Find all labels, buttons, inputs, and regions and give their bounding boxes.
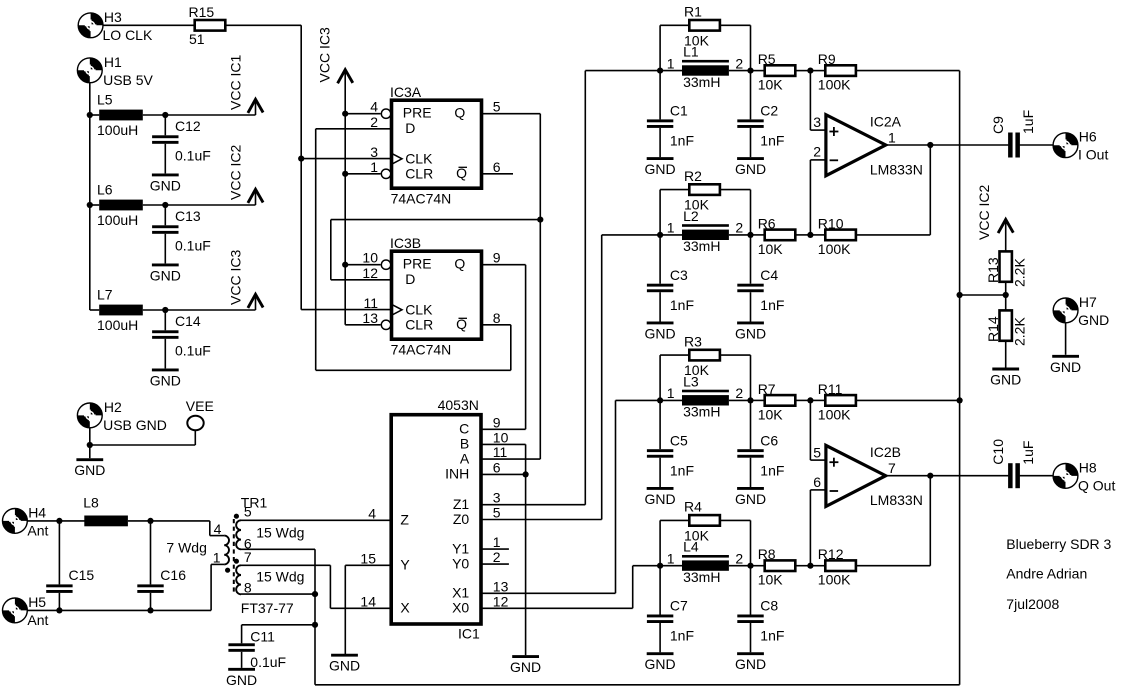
power symbol VCC IC3 arrow xyxy=(248,294,263,308)
junction LO I net xyxy=(537,217,543,223)
svg-text:D: D xyxy=(405,120,415,136)
svg-text:C8: C8 xyxy=(760,598,778,614)
svg-text:CLK: CLK xyxy=(405,301,433,317)
svg-text:15 Wdg: 15 Wdg xyxy=(256,568,304,584)
op-amp IC2B LM833N xyxy=(826,445,886,506)
node filter 3 left xyxy=(657,397,663,403)
svg-text:D: D xyxy=(405,271,415,287)
svg-text:IC2B: IC2B xyxy=(870,444,901,460)
svg-text:GND: GND xyxy=(329,658,360,674)
power symbol VEE xyxy=(187,416,203,431)
node op-amp input filter 3 xyxy=(807,397,813,403)
node op-amp input filter 4 xyxy=(807,563,813,569)
clock triangle IC3A xyxy=(392,153,402,164)
connector H1 USB 5V xyxy=(77,58,102,83)
power symbol VCC IC2 arrow xyxy=(248,189,263,203)
svg-text:C4: C4 xyxy=(760,267,778,283)
plus sign IC2A xyxy=(829,127,838,136)
svg-text:15 Wdg: 15 Wdg xyxy=(256,524,304,540)
svg-text:2: 2 xyxy=(493,549,501,565)
svg-text:10K: 10K xyxy=(758,572,784,588)
inductor L8 xyxy=(84,516,128,527)
wire to R10 xyxy=(810,234,825,236)
svg-text:100K: 100K xyxy=(818,406,851,422)
wire node to R6 xyxy=(751,234,765,236)
svg-text:0.1uF: 0.1uF xyxy=(175,342,211,358)
svg-text:Q: Q xyxy=(454,105,465,121)
svg-text:R9: R9 xyxy=(818,51,836,67)
resistor R4 10K xyxy=(689,515,720,526)
svg-text:VCC IC3: VCC IC3 xyxy=(317,27,333,82)
svg-text:C1: C1 xyxy=(670,103,688,119)
svg-text:3: 3 xyxy=(493,490,501,506)
svg-text:B: B xyxy=(460,436,469,452)
wire C11 to ground xyxy=(241,652,243,668)
svg-text:PRE: PRE xyxy=(403,256,432,272)
svg-text:GND: GND xyxy=(735,656,766,672)
wire to C14 xyxy=(164,310,166,330)
wire R5 out xyxy=(795,70,810,72)
svg-text:R6: R6 xyxy=(758,215,776,231)
junction C12 tap xyxy=(162,112,168,118)
node filter 4 right xyxy=(747,563,753,569)
wire to C6 xyxy=(750,400,752,449)
svg-text:1nF: 1nF xyxy=(670,628,694,644)
transformer TR1 secondary winding top xyxy=(236,520,241,549)
wire feedback IC2A xyxy=(929,145,931,235)
connector H7 GND xyxy=(1053,298,1078,323)
wire IC2A output xyxy=(886,144,1009,146)
svg-text:INH: INH xyxy=(445,466,469,482)
wire B INH to ground xyxy=(525,444,527,655)
wire to IC2A plus input xyxy=(809,71,811,131)
svg-text:9: 9 xyxy=(493,250,501,266)
wire Z0 up to filter 2 xyxy=(601,235,603,520)
svg-text:100uH: 100uH xyxy=(97,317,138,333)
ground C7 xyxy=(645,654,676,673)
ground H7 xyxy=(1050,356,1081,375)
svg-text:33mH: 33mH xyxy=(683,74,720,90)
wire IC1 C pin 9 xyxy=(482,428,526,430)
svg-text:GND: GND xyxy=(645,656,676,672)
svg-text:GND: GND xyxy=(990,372,1021,388)
connector H6 I Out xyxy=(1053,133,1078,158)
svg-text:1: 1 xyxy=(667,385,675,401)
svg-text:13: 13 xyxy=(493,578,509,594)
junction C15 bottom xyxy=(56,607,62,613)
svg-text:Y: Y xyxy=(400,557,410,573)
junction LO CLK / IC3A CLK xyxy=(298,156,304,162)
wire to C12 xyxy=(164,115,166,135)
svg-text:R2: R2 xyxy=(684,168,702,184)
capacitor C11 0.1uF xyxy=(228,643,254,652)
wire C9 to H6 xyxy=(1020,144,1054,146)
wire L6 to VCC IC2 xyxy=(143,204,256,206)
junction C13 tap xyxy=(162,202,168,208)
wire IC3B D pin 12 xyxy=(331,279,390,281)
svg-text:3: 3 xyxy=(370,144,378,160)
wire into filter 1 xyxy=(585,70,660,72)
wire node to R8 xyxy=(751,565,765,567)
wire R3 out xyxy=(720,354,751,356)
wire up to R1 xyxy=(659,25,661,70)
svg-text:1: 1 xyxy=(888,129,896,145)
node op-amp input filter 2 xyxy=(807,232,813,238)
svg-text:4053N: 4053N xyxy=(438,397,479,413)
svg-text:1: 1 xyxy=(493,534,501,550)
wire C16 down xyxy=(150,593,152,611)
wire IC3A D pin 2 xyxy=(316,128,390,130)
svg-text:12: 12 xyxy=(362,265,378,281)
wire R14 to ground xyxy=(1005,341,1007,368)
wire to IC3A PRE xyxy=(345,113,380,115)
capacitor C10 1uF xyxy=(1008,463,1020,488)
svg-text:L7: L7 xyxy=(97,287,113,303)
wire to IC3B CLK pin 11 xyxy=(301,309,390,311)
wire to IC2B minus input xyxy=(809,490,811,566)
power symbol VCC IC1 arrow xyxy=(248,99,263,113)
analog switch IC1 4053N body xyxy=(391,415,481,624)
wire LO I to IC1 A xyxy=(539,220,541,460)
wire C15 down xyxy=(58,593,60,611)
wire R4 out xyxy=(720,519,751,521)
wire feedback IC2B xyxy=(929,476,931,566)
wire IC1 Y0 stub xyxy=(482,563,509,565)
minus sign IC2B xyxy=(830,490,839,492)
svg-text:10K: 10K xyxy=(684,362,710,378)
inductor L1 33mH xyxy=(682,60,729,76)
svg-text:1: 1 xyxy=(370,159,378,175)
op-amp IC2A LM833N xyxy=(826,115,886,176)
wire IC1 X0 pin 12 xyxy=(482,607,633,609)
junction divider mid xyxy=(1003,292,1009,298)
clock triangle IC3B xyxy=(392,304,402,315)
svg-text:FT37-77: FT37-77 xyxy=(241,600,294,616)
wire C5 to ground xyxy=(659,458,661,487)
resistor R6 10K xyxy=(765,230,796,241)
svg-text:R15: R15 xyxy=(189,4,215,20)
svg-text:13: 13 xyxy=(362,310,378,326)
connector H2 USB GND xyxy=(77,403,102,428)
svg-text:H2: H2 xyxy=(104,399,122,415)
svg-text:L5: L5 xyxy=(97,92,113,108)
node filter 4 left xyxy=(657,563,663,569)
wire into R1 xyxy=(660,24,689,26)
capacitor C16 xyxy=(137,584,163,593)
wire bias bottom rail xyxy=(315,684,960,686)
capacitor C5 1nF xyxy=(647,449,673,457)
svg-text:10: 10 xyxy=(362,250,378,266)
wire to L6 xyxy=(90,204,99,206)
wire IC2B pin 5 xyxy=(810,459,826,461)
wire down to TR1 pin 4 xyxy=(209,521,211,536)
wire Q down xyxy=(539,114,541,220)
junction H1 rail at L6 xyxy=(87,202,93,208)
svg-text:100K: 100K xyxy=(818,77,851,93)
wire into R2 xyxy=(660,189,689,191)
svg-text:0.1uF: 0.1uF xyxy=(175,147,211,163)
svg-text:C10: C10 xyxy=(990,439,1006,465)
svg-text:L8: L8 xyxy=(83,495,99,511)
wire to C16 xyxy=(150,521,152,585)
resistor R1 10K xyxy=(689,20,720,31)
svg-text:Blueberry SDR 3: Blueberry SDR 3 xyxy=(1006,536,1111,552)
svg-text:C7: C7 xyxy=(670,598,688,614)
inductor L5 100uH xyxy=(99,110,143,121)
capacitor C13 0.1uF xyxy=(152,225,178,233)
wire IC1 Y1 stub xyxy=(482,548,509,550)
svg-text:7jul2008: 7jul2008 xyxy=(1006,596,1059,612)
svg-text:Ant: Ant xyxy=(27,612,48,628)
wire to C5 xyxy=(659,400,661,449)
svg-text:10K: 10K xyxy=(758,241,784,257)
junction pin8 bias xyxy=(312,591,318,597)
wire IC1 INH pin 6 xyxy=(482,473,526,475)
wire C1 to ground xyxy=(659,128,661,157)
inductor L6 100uH xyxy=(99,200,143,211)
svg-text:GND: GND xyxy=(735,325,766,341)
resistor R2 10K xyxy=(689,184,720,195)
wire Y to ground xyxy=(344,565,346,655)
junction C11 bias xyxy=(312,622,318,628)
wire Qbar up to IC3A D xyxy=(315,129,317,370)
svg-text:IC2A: IC2A xyxy=(870,113,902,129)
wire node to R5 xyxy=(751,70,765,72)
ground R14 xyxy=(990,369,1021,388)
svg-text:LO CLK: LO CLK xyxy=(103,27,153,43)
svg-text:2.2K: 2.2K xyxy=(1012,317,1028,346)
wire to R11 xyxy=(810,399,825,401)
inductor L3 33mH xyxy=(682,390,729,406)
capacitor C12 0.1uF xyxy=(152,135,178,143)
svg-text:2: 2 xyxy=(813,143,821,159)
junction bias tap xyxy=(957,292,963,298)
wire into filter 2 xyxy=(602,234,660,236)
svg-text:H8: H8 xyxy=(1079,459,1097,475)
svg-text:1uF: 1uF xyxy=(1020,441,1036,465)
svg-text:10K: 10K xyxy=(684,528,710,544)
svg-text:7: 7 xyxy=(244,549,252,565)
svg-text:GND: GND xyxy=(150,177,181,193)
wire to IC3A CLR xyxy=(345,173,380,175)
svg-text:74AC74N: 74AC74N xyxy=(391,342,452,358)
svg-text:IC3B: IC3B xyxy=(390,235,421,251)
svg-text:GND: GND xyxy=(645,491,676,507)
junction C16 top xyxy=(147,518,153,524)
svg-text:1nF: 1nF xyxy=(760,628,784,644)
wire Z1 up to filter 1 xyxy=(584,71,586,505)
wire TR1 pin7 xyxy=(241,564,330,566)
wire C4 to ground xyxy=(750,292,752,321)
svg-text:5: 5 xyxy=(493,505,501,521)
wire VCC IC3 vertical xyxy=(344,70,346,325)
svg-text:CLR: CLR xyxy=(405,165,433,181)
junction IC2A output xyxy=(927,142,933,148)
wire H5 rail xyxy=(27,609,211,611)
wire to IC3B PRE xyxy=(345,264,380,266)
svg-text:I Out: I Out xyxy=(1078,147,1108,163)
wire to C3 xyxy=(659,235,661,284)
svg-text:1nF: 1nF xyxy=(670,297,694,313)
capacitor C8 1nF xyxy=(737,615,763,624)
svg-text:5: 5 xyxy=(813,445,821,461)
wire C7 to ground xyxy=(659,623,661,652)
wire X0 up to filter 4 xyxy=(632,566,634,609)
svg-text:10K: 10K xyxy=(684,197,710,213)
capacitor C1 1nF xyxy=(647,119,673,128)
svg-text:7: 7 xyxy=(888,460,896,476)
svg-text:51: 51 xyxy=(189,31,205,47)
wire stem VCC IC3 xyxy=(255,294,257,310)
wire TR1 pin6 xyxy=(241,548,315,550)
wire LO CLK vertical xyxy=(300,25,302,309)
wire R6 out xyxy=(795,234,810,236)
svg-text:6: 6 xyxy=(493,159,501,175)
wire R9 to bias rail xyxy=(856,70,960,72)
wire into filter 3 xyxy=(616,399,661,401)
wire R8 out xyxy=(795,565,810,567)
connector H8 Q Out xyxy=(1053,464,1078,489)
svg-text:Y0: Y0 xyxy=(452,555,469,571)
svg-text:Q: Q xyxy=(454,256,465,272)
svg-text:6: 6 xyxy=(813,474,821,490)
svg-text:X: X xyxy=(400,600,410,616)
wire Qbar down xyxy=(510,325,512,371)
svg-text:C16: C16 xyxy=(160,567,186,583)
ground H2 xyxy=(74,460,105,479)
wire to C1 xyxy=(659,71,661,120)
svg-text:2: 2 xyxy=(735,220,743,236)
wire C2 to ground xyxy=(750,128,752,157)
wire to C2 xyxy=(750,71,752,120)
junction IC3B PRE xyxy=(342,262,348,268)
wire H4 to L8 xyxy=(27,520,85,522)
power symbol VCC IC2 arrow xyxy=(998,220,1013,234)
svg-text:X0: X0 xyxy=(452,600,469,616)
junction IC3A CLR xyxy=(342,171,348,177)
wire H3 to R15 xyxy=(103,24,195,26)
wire H7 to ground xyxy=(1065,323,1067,355)
svg-text:11: 11 xyxy=(493,444,508,460)
wire node to L1 xyxy=(660,70,682,72)
wire to TR1 primary bottom xyxy=(211,563,224,565)
wire bias vertical left xyxy=(314,549,316,685)
wire Qbar horizontal xyxy=(316,369,511,371)
wire H2 to ground xyxy=(89,428,91,458)
svg-text:X1: X1 xyxy=(452,585,469,601)
wire L8 to TR1 xyxy=(128,520,210,522)
svg-text:74AC74N: 74AC74N xyxy=(391,191,452,207)
junction IC2B output xyxy=(927,473,933,479)
capacitor C14 0.1uF xyxy=(152,330,178,339)
wire up to R2 xyxy=(659,190,661,235)
svg-text:Y1: Y1 xyxy=(452,540,469,556)
svg-text:14: 14 xyxy=(360,593,376,609)
wire R1 out xyxy=(720,24,751,26)
svg-text:2: 2 xyxy=(735,385,743,401)
wire to IC3B D xyxy=(330,220,332,280)
wire L4 to node xyxy=(729,565,751,567)
svg-text:C14: C14 xyxy=(175,313,201,329)
connector H4 Ant xyxy=(3,509,28,534)
svg-text:15: 15 xyxy=(360,550,376,566)
node filter 1 left xyxy=(657,68,663,74)
svg-text:GND: GND xyxy=(735,491,766,507)
wire C3 to ground xyxy=(659,292,661,321)
capacitor C2 1nF xyxy=(737,119,763,128)
svg-text:H7: H7 xyxy=(1079,294,1097,310)
junction H1 rail at L5 xyxy=(87,112,93,118)
node op-amp input filter 1 xyxy=(807,68,813,74)
svg-text:IC1: IC1 xyxy=(458,626,480,642)
wire TR1 pin5 to IC1 Z xyxy=(241,519,390,521)
ground C12 xyxy=(150,175,181,194)
svg-text:1: 1 xyxy=(667,550,675,566)
svg-text:6: 6 xyxy=(493,459,501,475)
inversion bubble CLR IC3A xyxy=(381,169,390,178)
ground C14 xyxy=(150,370,181,389)
svg-text:R3: R3 xyxy=(684,333,702,349)
transformer TR1 primary winding xyxy=(224,536,229,565)
svg-text:A: A xyxy=(460,450,470,466)
wire L7 to VCC IC3 xyxy=(143,309,256,311)
wire IC1 Z1 pin 3 xyxy=(482,504,585,506)
wire into R3 xyxy=(660,354,689,356)
wire R13 to R14 xyxy=(1005,282,1007,311)
wire R2 out xyxy=(720,189,751,191)
resistor R12 100K xyxy=(825,560,856,571)
svg-text:1nF: 1nF xyxy=(760,133,784,149)
wire IC1 Y pin 15 xyxy=(345,564,390,566)
svg-text:R14: R14 xyxy=(985,316,1001,342)
svg-text:GND: GND xyxy=(645,161,676,177)
svg-text:1: 1 xyxy=(213,550,221,566)
wire R10 to output xyxy=(856,234,931,236)
wire to R9 xyxy=(810,70,825,72)
power symbol VCC IC3 arrow xyxy=(338,70,353,84)
wire IC3B Q pin 9 xyxy=(482,264,526,266)
svg-text:1nF: 1nF xyxy=(760,462,784,478)
svg-text:33mH: 33mH xyxy=(683,238,720,254)
inductor L4 33mH xyxy=(682,555,729,571)
svg-text:1nF: 1nF xyxy=(760,297,784,313)
svg-text:10K: 10K xyxy=(684,32,710,48)
wire L5 to VCC IC1 xyxy=(143,114,256,116)
svg-text:H5: H5 xyxy=(28,594,46,610)
svg-text:0.1uF: 0.1uF xyxy=(250,654,286,670)
capacitor C7 1nF xyxy=(647,615,673,624)
wire node to L2 xyxy=(660,234,682,236)
wire IC1 Z0 pin 5 xyxy=(482,519,602,521)
wire stem VCC IC2 xyxy=(255,189,257,205)
wire VEE to H2 net xyxy=(90,444,196,446)
svg-text:Ant: Ant xyxy=(27,522,48,538)
resistor R5 10K xyxy=(765,65,796,76)
wire VEE down xyxy=(194,431,196,446)
wire R1 down to node xyxy=(750,25,752,70)
ground C1 xyxy=(645,159,676,178)
svg-text:R11: R11 xyxy=(818,381,843,397)
svg-text:Q Out: Q Out xyxy=(1078,477,1115,493)
svg-text:GND: GND xyxy=(150,267,181,283)
svg-text:GND: GND xyxy=(645,325,676,341)
inversion bubble CLR IC3B xyxy=(381,320,390,329)
svg-text:2: 2 xyxy=(735,55,743,71)
wire IC2B pin 6 xyxy=(810,489,826,491)
ground C13 xyxy=(150,265,181,284)
wire into R4 xyxy=(660,519,689,521)
svg-text:2: 2 xyxy=(370,114,378,130)
